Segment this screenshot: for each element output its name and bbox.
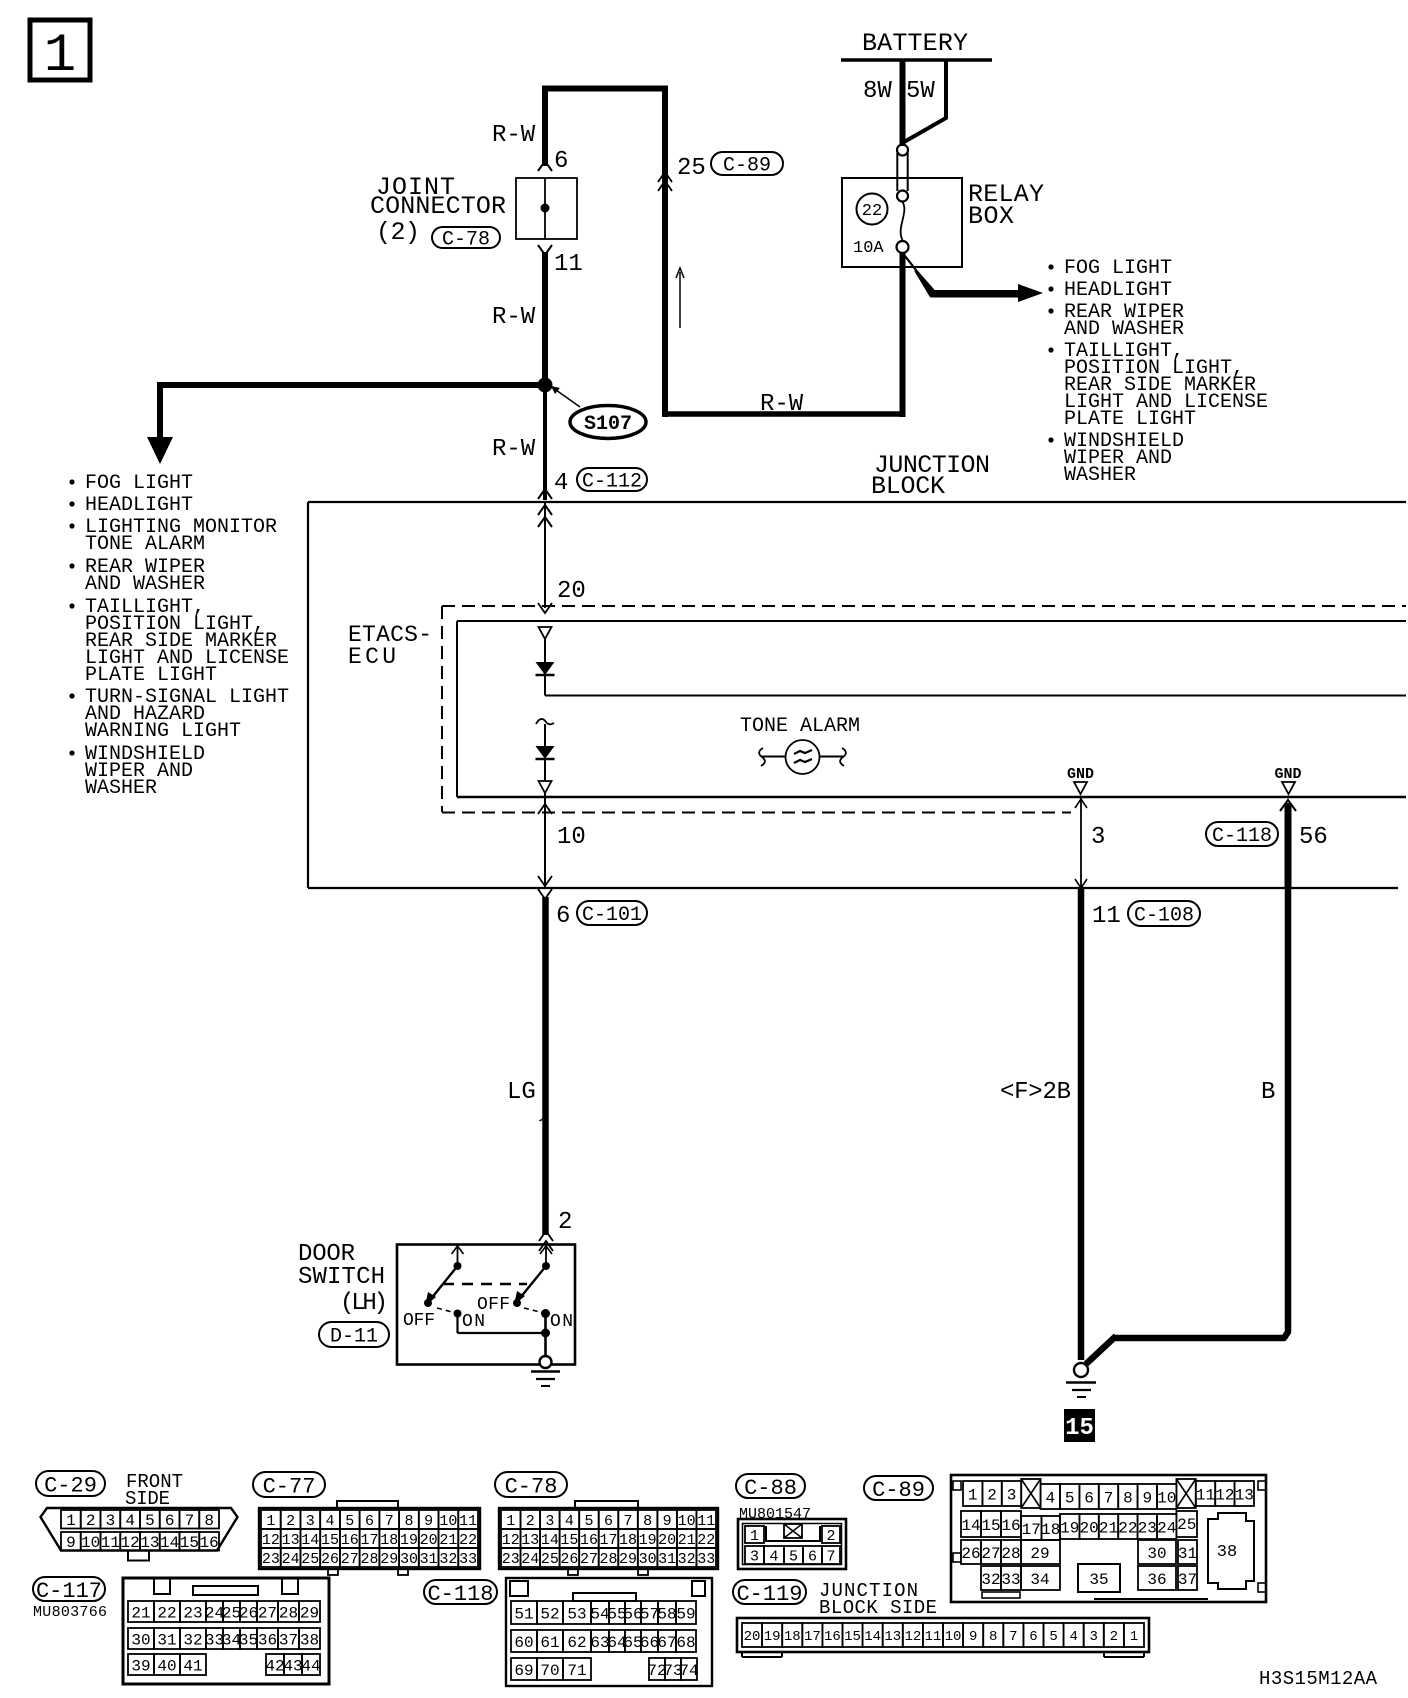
svg-text:4: 4 — [565, 1513, 574, 1530]
svg-text:52: 52 — [540, 1605, 559, 1623]
arrow into junction block pin 4 — [538, 489, 552, 527]
svg-text:10: 10 — [945, 1629, 962, 1645]
svg-text:58: 58 — [657, 1605, 676, 1623]
svg-text:7: 7 — [826, 1548, 835, 1565]
label S107 — [551, 386, 646, 439]
label ETACS-ECU — [348, 622, 432, 670]
arrow out junction pin 6 — [538, 876, 552, 899]
svg-text:ON: ON — [550, 1312, 573, 1332]
svg-text:66: 66 — [640, 1634, 659, 1652]
dashed link left — [437, 1308, 452, 1312]
connector C-88 pins 3-7 — [745, 1546, 840, 1565]
ground symbol door switch — [531, 1372, 560, 1387]
svg-text:GND: GND — [1067, 766, 1094, 783]
svg-text:17: 17 — [1022, 1521, 1041, 1539]
svg-text:4: 4 — [1069, 1629, 1077, 1645]
connector C-78 body — [499, 1508, 718, 1569]
connector C-78 pins 23-33 — [501, 1548, 716, 1568]
svg-text:C-117: C-117 — [36, 1579, 102, 1604]
svg-text:23: 23 — [183, 1604, 202, 1622]
svg-text:14: 14 — [160, 1534, 179, 1552]
svg-text:14: 14 — [301, 1532, 319, 1549]
svg-text:PLATE LIGHT: PLATE LIGHT — [85, 664, 217, 687]
svg-text:56: 56 — [1299, 824, 1328, 851]
connector C-89 keyway X left — [1021, 1479, 1040, 1508]
svg-text:17: 17 — [599, 1532, 617, 1549]
svg-text:2: 2 — [526, 1513, 535, 1530]
connector C-89 pins 1-3 — [963, 1481, 1021, 1506]
svg-text:11: 11 — [697, 1513, 715, 1530]
svg-text:68: 68 — [676, 1634, 695, 1652]
svg-text:33: 33 — [1001, 1571, 1020, 1589]
svg-text:10: 10 — [439, 1513, 457, 1530]
svg-text:39: 39 — [131, 1657, 150, 1675]
connector C-118 pins 69-74 — [511, 1658, 699, 1680]
load list left — [69, 472, 289, 800]
svg-text:32: 32 — [981, 1571, 1000, 1589]
connector C-77 body — [259, 1508, 480, 1569]
svg-text:1: 1 — [506, 1513, 515, 1530]
svg-text:30: 30 — [131, 1631, 150, 1649]
svg-text:67: 67 — [657, 1634, 676, 1652]
svg-text:C-101: C-101 — [582, 904, 642, 927]
tone alarm symbol — [759, 740, 846, 774]
svg-text:29: 29 — [1030, 1545, 1049, 1563]
svg-text:H3S15M12AA: H3S15M12AA — [1259, 1668, 1378, 1690]
svg-text:C-108: C-108 — [1134, 905, 1194, 928]
svg-text:5W: 5W — [906, 78, 935, 105]
svg-text:22: 22 — [1118, 1519, 1137, 1537]
svg-text:WASHER: WASHER — [85, 777, 157, 800]
svg-text:R-W: R-W — [760, 391, 804, 418]
svg-text:1: 1 — [750, 1528, 759, 1545]
wire 8W battery feed — [900, 60, 906, 146]
svg-text:3: 3 — [306, 1513, 315, 1530]
svg-text:3: 3 — [1090, 1629, 1098, 1645]
connector C-89 pin 29 — [1021, 1540, 1060, 1564]
svg-text:CONNECTOR: CONNECTOR — [370, 192, 506, 221]
svg-text:27: 27 — [258, 1604, 277, 1622]
connector C-118 pins 51-59 — [511, 1601, 696, 1624]
svg-text:9: 9 — [424, 1513, 433, 1530]
connector C-88 keyway — [766, 1524, 820, 1541]
connector C-89 pin 36 — [1138, 1566, 1176, 1590]
svg-text:6: 6 — [365, 1513, 374, 1530]
svg-text:15: 15 — [180, 1534, 199, 1552]
svg-text:1: 1 — [968, 1486, 978, 1504]
svg-text:C-29: C-29 — [44, 1473, 97, 1498]
svg-text:6: 6 — [1084, 1489, 1094, 1507]
connector C-89 body — [951, 1475, 1266, 1602]
svg-text:29: 29 — [300, 1604, 319, 1622]
connector C-89 pins 4-10 — [1041, 1484, 1177, 1509]
connector label C-78 — [432, 227, 500, 248]
ground GND 1 — [1067, 766, 1094, 794]
svg-text:14: 14 — [864, 1629, 881, 1645]
connector C-77 pins 1-11 — [261, 1510, 478, 1530]
ground reference tag 15 — [1064, 1409, 1095, 1442]
svg-text:26: 26 — [560, 1551, 578, 1568]
svg-text:36: 36 — [1147, 1571, 1166, 1589]
connector C-77 pins 12-22 — [261, 1529, 478, 1549]
connector label D-11 — [319, 1322, 389, 1347]
svg-text:16: 16 — [341, 1532, 359, 1549]
svg-text:22: 22 — [862, 202, 882, 221]
svg-text:<F>2B: <F>2B — [1000, 1079, 1071, 1106]
svg-text:31: 31 — [157, 1631, 176, 1649]
svg-text:22: 22 — [697, 1532, 715, 1549]
connector C-29 pins 9-16 — [61, 1532, 219, 1552]
svg-text:TONE ALARM: TONE ALARM — [85, 533, 205, 556]
svg-text:2: 2 — [558, 1209, 572, 1236]
splice S107 junction dot — [538, 378, 553, 393]
svg-text:21: 21 — [1099, 1519, 1118, 1537]
connector C-89 pins 14-16 — [961, 1511, 1021, 1537]
svg-text:PLATE LIGHT: PLATE LIGHT — [1064, 408, 1196, 431]
connector C-78 bottom tabs — [568, 1569, 648, 1575]
svg-text:SWITCH: SWITCH — [298, 1264, 385, 1291]
wire to ETACS pin 10 terminal — [544, 759, 546, 782]
svg-text:23: 23 — [262, 1551, 280, 1568]
connector C-118 body — [506, 1578, 712, 1686]
wire R-W S107 to junction block — [543, 385, 547, 500]
svg-text:15: 15 — [1065, 1415, 1094, 1442]
svg-text:16: 16 — [1001, 1517, 1020, 1535]
svg-text:7: 7 — [185, 1512, 195, 1530]
svg-text:19: 19 — [764, 1629, 781, 1645]
svg-text:62: 62 — [567, 1634, 586, 1652]
arrow into door switch pin 2 — [539, 1231, 553, 1251]
svg-text:30: 30 — [400, 1551, 418, 1568]
load list right of relay — [1048, 257, 1268, 487]
svg-text:40: 40 — [157, 1657, 176, 1675]
svg-text:16: 16 — [824, 1629, 841, 1645]
svg-text:32: 32 — [678, 1551, 696, 1568]
svg-text:7: 7 — [624, 1513, 633, 1530]
connector C-89 pin 30 — [1138, 1540, 1176, 1564]
connector C-89 pin 31 — [1178, 1540, 1197, 1564]
connector C-89 pins 17-18 — [1021, 1516, 1060, 1540]
svg-text:6: 6 — [1029, 1629, 1037, 1645]
svg-text:6: 6 — [165, 1512, 175, 1530]
svg-text:35: 35 — [239, 1631, 258, 1649]
svg-text:44: 44 — [301, 1657, 320, 1675]
svg-text:24: 24 — [521, 1551, 539, 1568]
svg-text:11: 11 — [554, 251, 583, 278]
connector label C-108 — [1128, 901, 1200, 926]
wire pin 56 ground lead — [1285, 803, 1292, 888]
svg-text:12: 12 — [1215, 1486, 1234, 1504]
svg-text:BLOCK: BLOCK — [871, 472, 945, 501]
svg-text:3: 3 — [750, 1548, 759, 1565]
svg-text:29: 29 — [380, 1551, 398, 1568]
connector C-89 pin 37 — [1178, 1566, 1197, 1590]
svg-text:20: 20 — [557, 578, 586, 605]
svg-text:R-W: R-W — [492, 304, 536, 331]
connector C-78 pins 12-22 — [501, 1529, 716, 1549]
svg-text:74: 74 — [679, 1662, 698, 1680]
connector C-117 pins 39-44 — [128, 1654, 321, 1675]
svg-text:6: 6 — [808, 1548, 817, 1565]
svg-text:C-88: C-88 — [744, 1476, 797, 1501]
svg-text:13: 13 — [140, 1534, 159, 1552]
door switch left ON contact — [454, 1310, 462, 1318]
svg-text:27: 27 — [341, 1551, 359, 1568]
door switch right ON contact — [541, 1309, 550, 1318]
svg-text:26: 26 — [321, 1551, 339, 1568]
wire R-W joint connector to S107 — [542, 252, 548, 385]
arrow marks pin 25 — [658, 172, 672, 191]
wire to diode — [544, 639, 546, 662]
wire from fuse to R-W bus — [900, 253, 906, 417]
connector C-89 pins 11-13 — [1196, 1481, 1254, 1506]
connector C-29 body — [41, 1508, 238, 1551]
svg-text:SIDE: SIDE — [125, 1488, 170, 1510]
svg-text:4: 4 — [769, 1548, 778, 1565]
dashed link right — [524, 1308, 540, 1312]
svg-text:3: 3 — [1091, 824, 1105, 851]
svg-text:4: 4 — [125, 1512, 135, 1530]
connector label C-89 — [711, 152, 783, 175]
svg-text:12: 12 — [904, 1629, 921, 1645]
svg-text:7: 7 — [1009, 1629, 1017, 1645]
connector label C-119 — [733, 1580, 806, 1604]
svg-text:20: 20 — [420, 1532, 438, 1549]
svg-text:13: 13 — [884, 1629, 901, 1645]
svg-text:21: 21 — [439, 1532, 457, 1549]
svg-text:4: 4 — [326, 1513, 335, 1530]
svg-text:BOX: BOX — [968, 202, 1014, 231]
svg-text:32: 32 — [183, 1631, 202, 1649]
svg-text:3: 3 — [545, 1513, 554, 1530]
label RELAY BOX — [968, 180, 1044, 231]
svg-text:19: 19 — [400, 1532, 418, 1549]
diode D2 — [536, 746, 555, 759]
door switch box — [397, 1245, 575, 1365]
svg-text:1: 1 — [1130, 1629, 1138, 1645]
svg-text:33: 33 — [459, 1551, 477, 1568]
svg-text:12: 12 — [502, 1532, 520, 1549]
svg-text:OFF: OFF — [403, 1311, 435, 1331]
svg-text:10: 10 — [1157, 1489, 1176, 1507]
svg-text:26: 26 — [239, 1604, 258, 1622]
door switch left contact arm — [424, 1246, 464, 1307]
svg-text:25: 25 — [677, 155, 706, 182]
svg-text:38: 38 — [1217, 1543, 1237, 1562]
svg-text:27: 27 — [580, 1551, 598, 1568]
ETACS pin 20 terminal — [539, 627, 552, 639]
arrowhead to left load list — [147, 437, 173, 464]
label JOINT CONNECTOR (2) — [370, 173, 506, 247]
arrow out of dashed box — [538, 804, 552, 814]
svg-text:C-78: C-78 — [442, 229, 490, 252]
svg-text:7: 7 — [1104, 1489, 1114, 1507]
svg-text:20: 20 — [744, 1629, 761, 1645]
svg-text:10A: 10A — [853, 239, 884, 258]
svg-text:14: 14 — [541, 1532, 559, 1549]
wire to left load list — [157, 382, 545, 440]
connector C-88 body — [738, 1519, 846, 1569]
wire diode to bus — [545, 675, 1406, 696]
svg-text:ON: ON — [462, 1312, 485, 1332]
svg-text:30: 30 — [639, 1551, 657, 1568]
current direction arrow — [676, 268, 684, 328]
svg-text:59: 59 — [676, 1605, 695, 1623]
svg-text:8: 8 — [643, 1513, 652, 1530]
wire nick mark — [540, 1118, 546, 1122]
battery — [841, 29, 992, 60]
joint connector C-78 box — [516, 178, 577, 239]
connector C-89 pins 19-24 — [1060, 1514, 1176, 1539]
svg-text:9: 9 — [969, 1629, 977, 1645]
svg-text:7: 7 — [385, 1513, 394, 1530]
svg-text:42: 42 — [265, 1657, 284, 1675]
svg-text:B: B — [1261, 1079, 1275, 1106]
svg-text:61: 61 — [540, 1634, 559, 1652]
svg-text:70: 70 — [540, 1662, 559, 1680]
svg-text:34: 34 — [1030, 1571, 1049, 1589]
wire B from pin 56 — [1086, 888, 1288, 1364]
wire LG to door switch — [542, 897, 549, 1235]
connector label C-89 bottom — [864, 1476, 933, 1500]
wire R-W down to joint connector — [542, 86, 548, 167]
ground terminal body ground — [1074, 1363, 1088, 1377]
label DOOR SWITCH (LH) — [298, 1241, 388, 1317]
svg-text:20: 20 — [658, 1532, 676, 1549]
svg-text:13: 13 — [521, 1532, 539, 1549]
wire to diode D2 — [544, 724, 546, 746]
svg-text:19: 19 — [639, 1532, 657, 1549]
svg-text:2: 2 — [1110, 1629, 1118, 1645]
svg-text:15: 15 — [981, 1517, 1000, 1535]
svg-text:WASHER: WASHER — [1064, 464, 1136, 487]
svg-text:5: 5 — [145, 1512, 155, 1530]
svg-text:C-118: C-118 — [1212, 825, 1272, 848]
connector label C-101 — [577, 901, 647, 925]
svg-text:29: 29 — [619, 1551, 637, 1568]
ETACS-ECU dashed box — [442, 606, 1406, 813]
connector C-89 bottom tabs — [982, 1592, 1208, 1599]
svg-text:69: 69 — [514, 1662, 533, 1680]
junction block outline — [308, 502, 1406, 888]
svg-text:28: 28 — [360, 1551, 378, 1568]
svg-text:41: 41 — [183, 1657, 202, 1675]
svg-text:15: 15 — [321, 1532, 339, 1549]
svg-text:8: 8 — [1123, 1489, 1133, 1507]
svg-text:8: 8 — [404, 1513, 413, 1530]
page number box 1 — [30, 20, 90, 87]
wire ETACS pin 10 out — [544, 793, 546, 888]
connector C-119 body — [737, 1618, 1149, 1652]
svg-text:C-78: C-78 — [505, 1474, 558, 1499]
connector C-89 pins 26-28 — [961, 1540, 1021, 1564]
svg-text:11: 11 — [925, 1629, 942, 1645]
connector label C-118 — [1206, 822, 1278, 846]
arrow into ETACS pin 20 — [538, 603, 552, 613]
svg-text:5: 5 — [789, 1548, 798, 1565]
svg-text:8W: 8W — [863, 78, 892, 105]
dashed mechanical link — [443, 1283, 527, 1285]
svg-text:2: 2 — [286, 1513, 295, 1530]
svg-text:9: 9 — [663, 1513, 672, 1530]
svg-text:11: 11 — [1092, 903, 1121, 930]
svg-text:25: 25 — [1177, 1516, 1196, 1534]
label FRONT SIDE — [125, 1471, 183, 1510]
wire pin 4 to ETACS pin 20 — [544, 502, 546, 608]
ETACS inner box — [457, 621, 1406, 797]
svg-text:18: 18 — [784, 1629, 801, 1645]
svg-text:D-11: D-11 — [330, 1326, 378, 1349]
connector label C-29 — [36, 1471, 105, 1496]
label JUNCTION BLOCK — [871, 451, 990, 501]
connector C-78 top tab — [575, 1501, 638, 1509]
arrow to right-side load list — [905, 256, 1043, 302]
svg-text:6: 6 — [556, 903, 570, 930]
svg-text:60: 60 — [514, 1634, 533, 1652]
svg-text:28: 28 — [1001, 1545, 1020, 1563]
svg-text:23: 23 — [502, 1551, 520, 1568]
svg-text:10: 10 — [557, 824, 586, 851]
svg-text:C-118: C-118 — [427, 1582, 493, 1607]
svg-text:BATTERY: BATTERY — [862, 29, 968, 58]
svg-text:37: 37 — [1178, 1571, 1197, 1589]
svg-text:13: 13 — [1235, 1486, 1254, 1504]
fuse 22 element — [897, 145, 909, 254]
svg-text:C-89: C-89 — [872, 1478, 925, 1503]
connector C-88 pin 1 — [745, 1526, 764, 1545]
svg-text:22: 22 — [157, 1604, 176, 1622]
svg-text:21: 21 — [131, 1604, 150, 1622]
svg-text:MU801547: MU801547 — [739, 1506, 811, 1523]
connector C-117 body — [123, 1578, 329, 1684]
relay box — [842, 178, 962, 267]
svg-text:9: 9 — [66, 1534, 76, 1552]
svg-text:53: 53 — [567, 1605, 586, 1623]
svg-text:30: 30 — [1147, 1545, 1166, 1563]
svg-text:17: 17 — [804, 1629, 821, 1645]
door switch right contact arm — [513, 1245, 552, 1308]
wire 5W branch — [904, 60, 946, 142]
svg-text:71: 71 — [567, 1662, 586, 1680]
connector C-118 top tabs — [510, 1581, 705, 1601]
svg-text:10: 10 — [678, 1513, 696, 1530]
wire R-W horizontal to relay — [662, 411, 905, 417]
wire ETACS pin 3 to junction pin 11 — [1080, 797, 1082, 888]
connector label C-78 bottom — [495, 1472, 567, 1497]
connector C-89 pins 32-33 — [981, 1566, 1021, 1590]
svg-text:31: 31 — [420, 1551, 438, 1568]
door switch internal ground wiring — [458, 1314, 551, 1357]
connector C-89 pin 34 — [1021, 1566, 1060, 1590]
svg-text:16: 16 — [200, 1534, 219, 1552]
svg-text:25: 25 — [301, 1551, 319, 1568]
connector label C-88 — [736, 1474, 805, 1498]
svg-text:FOG LIGHT: FOG LIGHT — [85, 472, 193, 495]
svg-text:18: 18 — [380, 1532, 398, 1549]
connector C-78 pins 1-11 — [501, 1510, 716, 1530]
svg-text:16: 16 — [580, 1532, 598, 1549]
svg-text:C-119: C-119 — [736, 1582, 802, 1607]
connector C-117 top tabs — [154, 1578, 298, 1595]
connector C-117 pins 30-38 — [128, 1628, 320, 1649]
wire F-2B junction pin 11 to ground — [1078, 888, 1085, 1360]
svg-text:27: 27 — [981, 1545, 1000, 1563]
svg-text:WARNING LIGHT: WARNING LIGHT — [85, 720, 241, 743]
svg-text:21: 21 — [678, 1532, 696, 1549]
svg-text:1: 1 — [266, 1513, 275, 1530]
svg-text:14: 14 — [961, 1517, 980, 1535]
svg-text:AND WASHER: AND WASHER — [1064, 318, 1184, 341]
